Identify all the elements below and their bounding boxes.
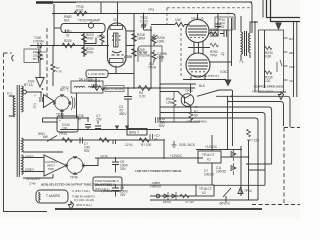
svg-text:6.3 VAC 10-1W: 6.3 VAC 10-1W [74, 198, 94, 202]
svg-text:(PIN 3 ALL): (PIN 3 ALL) [95, 187, 110, 191]
wire V1 bottom pin [115, 66, 117, 74]
svg-text:K1: K1 [207, 158, 211, 162]
svg-text:100/23: 100/23 [204, 173, 214, 177]
wire feedback loop box [61, 24, 105, 33]
svg-text:BO: BO [60, 88, 65, 92]
wire plate rail extension [232, 90, 234, 146]
resistor R-bias3 [180, 194, 189, 198]
box pwr assembly [93, 177, 122, 191]
svg-text:25V: 25V [96, 118, 103, 122]
wire heater row 2 [23, 151, 63, 153]
wire bias components row [150, 195, 196, 197]
choke L1 windings [74, 86, 99, 87]
resistor R4 3.7K [138, 86, 151, 91]
svg-text:BLK: BLK [199, 84, 206, 88]
wire bias return rail [150, 199, 258, 201]
svg-text:MV RMS: MV RMS [33, 57, 44, 61]
wire grey feed 1 [23, 157, 44, 159]
resistor R250 [210, 43, 218, 47]
wire V2 pins [194, 14, 203, 55]
svg-text:GRN/GRY: GRN/GRY [26, 177, 42, 181]
potentiometer C209B [152, 50, 156, 62]
wire bridge out [62, 93, 77, 118]
wire TP16 to TP18 [211, 163, 213, 185]
svg-text:TP28: TP28 [100, 155, 108, 159]
svg-text:TP3: TP3 [148, 8, 154, 12]
wire branch down from rail to input node [53, 4, 55, 46]
svg-text:180M: 180M [137, 37, 145, 41]
diode D12 [164, 192, 168, 200]
svg-text:TP46: TP46 [70, 176, 78, 180]
svg-text:6.8K: 6.8K [265, 55, 272, 59]
resistor R234 [265, 46, 272, 49]
svg-text:25V: 25V [120, 167, 127, 171]
svg-text:FOR NEG SPKR: FOR NEG SPKR [252, 90, 273, 94]
svg-text:TP50: TP50 [185, 89, 193, 93]
resistor R204 [82, 47, 86, 55]
svg-text:Pwrned: Pwrned [150, 185, 161, 189]
box BIAS T [127, 129, 147, 136]
capacitor C15 [150, 134, 153, 139]
svg-text:TPM: TPM [210, 54, 217, 58]
svg-text:+: + [59, 119, 61, 123]
node feed arrow hollow [36, 78, 44, 88]
amplifier triangle PS [44, 95, 55, 108]
wire B+ to arrow [227, 70, 229, 80]
resistor R209 [132, 49, 136, 57]
bridge BR2 diode arrows [66, 156, 85, 175]
wire top border medium segment [53, 1, 76, 3]
wire TP16 top feed [196, 149, 241, 151]
svg-text:R? 1M: R? 1M [139, 50, 148, 54]
svg-text:D8 D9: D8 D9 [163, 200, 171, 204]
svg-text:450V: 450V [119, 112, 127, 116]
wire feedback branch [39, 46, 41, 53]
box choke block [71, 81, 103, 93]
svg-text:BIAS T: BIAS T [129, 131, 139, 135]
wire to volume node [144, 26, 152, 62]
node B+ arrow [225, 80, 231, 86]
bridge rectifier BR2 ring [67, 158, 83, 174]
resistor R-heat [62, 138, 73, 142]
ground arrow g2 [125, 124, 129, 130]
resistor R2 4.7K [92, 86, 105, 91]
jack terminal ticks [284, 38, 288, 80]
svg-text:7.3: 7.3 [239, 60, 244, 64]
wire bus F vertical [248, 140, 250, 200]
svg-text:PWR: PWR [48, 167, 54, 171]
wire screen feed drop [52, 46, 54, 65]
tube V1 plate box upper [110, 26, 123, 30]
wire Q1 base feed [160, 92, 185, 99]
tube V1 grid lower [112, 54, 124, 56]
svg-text:100K: 100K [157, 40, 165, 44]
svg-text:47: 47 [154, 138, 158, 142]
svg-text:50V: 50V [84, 149, 91, 153]
wire filter node [43, 117, 89, 119]
wire plate rail [231, 18, 233, 66]
svg-text:T 6A/BRD: T 6A/BRD [46, 194, 61, 198]
transformer T2 heater winding 2 [22, 155, 24, 175]
tube V1 anode column [114, 33, 119, 47]
wire feedback diagonal [197, 90, 232, 96]
wire V3 pins [191, 76, 205, 81]
svg-text:7: 7 [67, 89, 69, 93]
svg-text:TP22: TP22 [97, 35, 105, 39]
tube V2 electrode bars [188, 26, 207, 35]
wire A740 link [108, 73, 134, 75]
svg-text:25V: 25V [120, 193, 127, 197]
wire top border thick segment [36, 1, 53, 3]
transformer T1 core [245, 31, 247, 56]
wire supply rail x=134 [133, 14, 135, 89]
svg-text:+12VDC: +12VDC [205, 145, 218, 149]
capacitor C1000b [112, 185, 119, 197]
svg-text:100K: 100K [157, 56, 165, 60]
capacitor C204b [141, 25, 146, 27]
svg-text:IQ: IQ [221, 52, 225, 56]
svg-text:12 KL: 12 KL [125, 143, 134, 147]
transistor Q1 [181, 94, 194, 107]
wire bus G crossbar [249, 169, 266, 171]
bridge diode arrows [53, 94, 70, 111]
svg-text:10: 10 [113, 18, 117, 22]
wire coupling to power amp [151, 24, 190, 26]
wire driver mid bus [160, 83, 196, 85]
svg-text:RED: RED [289, 52, 294, 55]
wire vertical right of T1 [262, 0, 264, 18]
wire V1 plate to rail [126, 31, 134, 46]
box A740 GND [86, 70, 108, 78]
triangle TP14 [238, 188, 243, 194]
transformer T1 secondary [249, 33, 251, 53]
svg-text:47: 47 [78, 118, 82, 122]
svg-text:TP38 (OUTPUT): TP38 (OUTPUT) [193, 74, 219, 78]
resistor R203 [82, 34, 86, 42]
wire right border pair [294, 22, 297, 97]
wire C240 feed [43, 118, 58, 122]
svg-text:4.7K: 4.7K [56, 70, 62, 74]
dashed border right corner [252, 128, 300, 205]
svg-text:GRN: GRN [289, 66, 295, 69]
svg-text:TP26 PREAMP: TP26 PREAMP [78, 19, 100, 23]
svg-text:CLIPPING: CLIPPING [45, 160, 57, 164]
tube V3 envelope [186, 53, 210, 77]
tube V2 envelope [186, 20, 209, 43]
svg-text:–60VDC: –60VDC [218, 202, 231, 206]
svg-text:K2: K2 [202, 191, 206, 195]
svg-text:+12VDC: +12VDC [170, 154, 183, 158]
svg-text:1/700M: 1/700M [33, 40, 44, 44]
resistor R6 [172, 92, 176, 123]
wire bridge in [54, 100, 56, 102]
svg-text:.022: .022 [141, 23, 147, 27]
wire TP16 right [221, 156, 249, 158]
wire vertical drop from top rail to output transformer [249, 2, 252, 33]
svg-text:FUS: FUS [28, 80, 34, 84]
jack bracket PS [72, 96, 76, 110]
dashed boundary power amp [167, 8, 251, 24]
tube V3 electrode bars [188, 60, 208, 69]
svg-text:FOR POS SPKR JACK: FOR POS SPKR JACK [254, 85, 283, 89]
svg-text:X (PIN 7 ALL): X (PIN 7 ALL) [72, 189, 90, 193]
wire below V3 [183, 79, 226, 81]
resistor R215 [208, 32, 224, 36]
ground arrow g1 [115, 124, 119, 130]
tube V3 grid dashes [191, 71, 205, 73]
wire bottom left thin line [4, 211, 48, 213]
diode D13 [172, 192, 176, 200]
svg-text:250-750: 250-750 [33, 54, 43, 58]
wire bus D [160, 113, 265, 186]
svg-text:A202: A202 [217, 25, 225, 29]
svg-text:GREY: GREY [25, 155, 35, 159]
wire screen rail extension [227, 96, 229, 149]
svg-text:LOW VOLT. POWER SUPPLY DECAL: LOW VOLT. POWER SUPPLY DECAL [135, 169, 182, 173]
svg-text:TR6 2N234663: TR6 2N234663 [187, 120, 207, 124]
wire V2 cathode row [188, 47, 210, 49]
svg-text:1 A740 GND: 1 A740 GND [88, 72, 106, 76]
capacitor C230 [33, 92, 42, 102]
svg-text:3.7K: 3.7K [139, 95, 146, 99]
wire bus A [216, 96, 290, 127]
capacitor C236 [85, 118, 91, 130]
node bracket mark left [12, 55, 14, 61]
wire T1 bottom leads [241, 53, 250, 61]
svg-text:20K: 20K [210, 32, 217, 36]
svg-text:R2 4.7K/2W: R2 4.7K/2W [106, 87, 123, 91]
potentiometer wiper [151, 35, 158, 40]
wire bias drop [163, 140, 165, 158]
svg-text:TP5A: TP5A [91, 83, 98, 87]
tube V2 grid dashes [190, 37, 204, 39]
wire bias lower rail [95, 184, 196, 186]
svg-text:100/35: 100/35 [216, 170, 226, 174]
tube V1 plate box lower [110, 59, 124, 63]
speaker panel box [259, 30, 284, 92]
svg-text:VOLUME: VOLUME [139, 54, 151, 58]
resistor C1 2.2K [175, 23, 185, 27]
wire V2 plate link [209, 30, 232, 62]
coil filament symbol [39, 192, 40, 202]
wire HV bus [103, 87, 195, 89]
wire bottom ground bus thick [55, 208, 262, 210]
transformer T2 heater winding 1 [22, 138, 24, 152]
svg-text:(PIN 9 ALL): (PIN 9 ALL) [76, 203, 92, 207]
box control panel [138, 46, 162, 62]
box filament note [36, 190, 68, 203]
svg-text:120: 120 [265, 79, 271, 83]
box C240 can [57, 116, 78, 132]
wire screen rail [227, 18, 229, 70]
diode D10 [231, 149, 236, 161]
wire mark1 drop [95, 78, 97, 89]
amplifier triangle clipping [44, 155, 66, 176]
wire T1 top leads [241, 16, 258, 33]
svg-text:C? 1W: C? 1W [185, 200, 194, 204]
svg-text:TP16 CT: TP16 CT [202, 153, 215, 157]
wire bottom left margin vertical [3, 195, 5, 212]
bridge rectifier BR1 ring [55, 96, 69, 110]
wire rail drop x101 [100, 3, 102, 14]
wire tap to TP22 [84, 38, 96, 44]
node bias circle [156, 194, 160, 198]
svg-text:BLK: BLK [289, 38, 294, 41]
wire driver bottom [160, 121, 200, 123]
wire box link [54, 27, 61, 29]
wire V1 top pin stub [117, 23, 119, 26]
jack J1 contacts [277, 60, 282, 72]
capacitor C237 [95, 121, 101, 129]
svg-text:TP? 15K: TP? 15K [247, 139, 260, 143]
capacitor C-heat [80, 138, 83, 144]
capacitor C1000a [112, 158, 119, 173]
ground jack symbol [172, 141, 177, 147]
svg-text:A700: A700 [124, 55, 132, 59]
resistor R8 [189, 112, 193, 122]
svg-text:GREY: GREY [25, 168, 35, 172]
box feedback note [24, 49, 39, 63]
switch SW1 [47, 136, 57, 142]
wire bus B [228, 102, 284, 127]
svg-text:100: 100 [62, 127, 68, 131]
resistor R-bias1 [99, 138, 110, 142]
capacitor C3 [124, 88, 132, 130]
border frame top-right corner inner [271, 0, 301, 22]
wire bus F2 vertical [240, 146, 242, 196]
capacitor C-bias [113, 140, 116, 144]
capacitor C210 [224, 30, 227, 37]
svg-text:H z: H z [7, 92, 12, 96]
wire output cage vertical [254, 22, 256, 92]
svg-text:TP14: TP14 [244, 189, 252, 193]
resistor on bus F [247, 129, 251, 137]
diode D11 [231, 163, 236, 175]
wire low volt rail [95, 157, 203, 159]
box TP16 CT [198, 151, 221, 163]
svg-text:0.002: 0.002 [220, 70, 228, 74]
capacitor C202 [66, 30, 69, 33]
potentiometer R205 [152, 34, 156, 46]
svg-text:470K: 470K [86, 51, 94, 55]
transformer T2 secondary HV [22, 86, 24, 112]
svg-text:INPUT: INPUT [47, 164, 55, 168]
wire primary leads [9, 96, 15, 116]
resistor R206 grid [100, 33, 104, 46]
svg-text:R221: R221 [76, 9, 84, 13]
svg-text:YEL: YEL [289, 80, 294, 83]
transformer T1 output [241, 32, 243, 54]
wire bus E [160, 118, 258, 200]
node panel feed arrow [276, 23, 281, 29]
svg-text:R200: R200 [64, 39, 72, 43]
transformer T2 primary [13, 96, 15, 117]
wire grid divider vertical [83, 33, 85, 57]
resistor R221 [74, 11, 87, 15]
wire coupling drop [143, 14, 145, 31]
svg-text:470K: 470K [86, 37, 94, 41]
tube V1 envelope [108, 23, 127, 67]
wire top horizontal rail [52, 1, 252, 3]
wire BR2 output [83, 158, 98, 166]
ground filament arrow [68, 202, 73, 210]
svg-text:FEEDBACK: FEEDBACK [33, 50, 48, 54]
svg-text:6W: 6W [43, 135, 48, 139]
wire speaker feed [264, 30, 266, 88]
switch SW2 [223, 188, 231, 197]
svg-text:+: + [34, 94, 36, 98]
svg-text:BT 1A: BT 1A [24, 83, 34, 87]
resistor R-screenfeed [51, 64, 55, 86]
svg-text:GND JACK: GND JACK [179, 143, 196, 147]
wire V1 top pin [117, 2, 119, 25]
wire heater row 1 [23, 139, 163, 141]
svg-text:R?: R? [141, 143, 145, 147]
wire drop to coupling cap C204 [210, 14, 218, 37]
box R2 label [105, 86, 124, 92]
svg-text:.02: .02 [65, 34, 70, 38]
tube V1 cathode arc [112, 51, 122, 53]
svg-text:TP40: TP40 [56, 113, 64, 117]
wire grey feed 2 [23, 171, 44, 173]
wire bus C [160, 107, 272, 164]
wire input line [30, 45, 109, 47]
wire -60vdc drop [225, 196, 227, 202]
ground speaker [278, 92, 283, 100]
wire TP16 riser [211, 135, 213, 151]
svg-text:C?40: C?40 [29, 182, 36, 186]
svg-text:TP2A: TP2A [148, 66, 157, 70]
dashed border far left [4, 53, 12, 95]
wire grn feed [23, 174, 53, 178]
capacitor C14 [156, 117, 159, 123]
capacitor C204 [215, 24, 221, 27]
dashed border preamp left [46, 28, 48, 97]
wire ground rail mid [60, 129, 160, 131]
resistor R208 [132, 34, 136, 42]
tube V1 grid marks [112, 33, 121, 47]
svg-text:47: 47 [33, 106, 37, 110]
resistor R236 [265, 71, 272, 74]
svg-text:50V: 50V [159, 124, 166, 128]
wire preamp plate rail y=13.5 [52, 14, 235, 31]
box C204 assembly [215, 17, 233, 30]
resistor R-bias2 [139, 138, 150, 142]
box TP18 CT [196, 185, 214, 196]
svg-text:50: 50 [194, 114, 198, 118]
resistor R-feedback [38, 52, 42, 78]
svg-text:TP36 V2: TP36 V2 [191, 17, 204, 21]
dashed boundary power amp left [180, 28, 182, 78]
transistor Q1 leads [185, 84, 192, 112]
svg-text:1/W: 1/W [175, 18, 181, 22]
wire speaker panel bottom [258, 91, 286, 93]
resistor R200 [62, 43, 75, 47]
fuse F1 [23, 87, 33, 92]
svg-text:12B: 12B [166, 101, 172, 105]
wire far left vertical [3, 95, 5, 195]
border frame top-right corner outer [267, 0, 301, 18]
svg-text:N/A: N/A [64, 19, 70, 23]
node TP24 [88, 23, 93, 28]
wire volume chain down [150, 62, 152, 88]
svg-text:TP44: TP44 [59, 132, 67, 136]
capacitor C200 [38, 43, 42, 48]
transformer T2 core [17, 85, 19, 177]
wire driver rail [159, 55, 161, 122]
svg-text:100: 100 [146, 143, 152, 147]
